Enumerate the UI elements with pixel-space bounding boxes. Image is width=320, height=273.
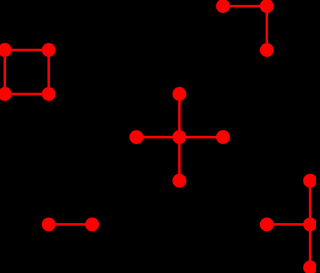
wire square left edge: [4, 50, 7, 94]
wire square top edge: [5, 49, 49, 52]
wire L vertical: [266, 6, 269, 50]
node L bottom: [261, 44, 272, 55]
wire square right edge: [47, 50, 50, 94]
node segment left: [43, 219, 54, 230]
wire right-plus vertical: [309, 181, 312, 268]
node right-plus top: [304, 175, 315, 186]
node right-plus center: [304, 219, 315, 230]
node L left: [217, 0, 228, 11]
node square top-left: [0, 44, 11, 55]
node plus bottom: [174, 175, 185, 186]
node right-plus left: [261, 219, 272, 230]
node segment right: [86, 219, 97, 230]
node plus top: [174, 88, 185, 99]
node square top-right: [43, 44, 54, 55]
wire right-plus horizontal: [267, 223, 310, 226]
node right-plus bottom: [304, 262, 315, 273]
node plus right: [217, 131, 228, 142]
node plus center: [174, 131, 185, 142]
wire plus vertical: [178, 94, 181, 181]
wire segment: [49, 223, 92, 226]
node plus left: [131, 131, 142, 142]
wire square bottom edge: [5, 93, 49, 96]
node square bottom-right: [43, 88, 54, 99]
node square bottom-left: [0, 88, 11, 99]
wire plus horizontal: [136, 136, 223, 139]
wire L horizontal: [223, 5, 267, 8]
node L corner: [261, 0, 272, 11]
